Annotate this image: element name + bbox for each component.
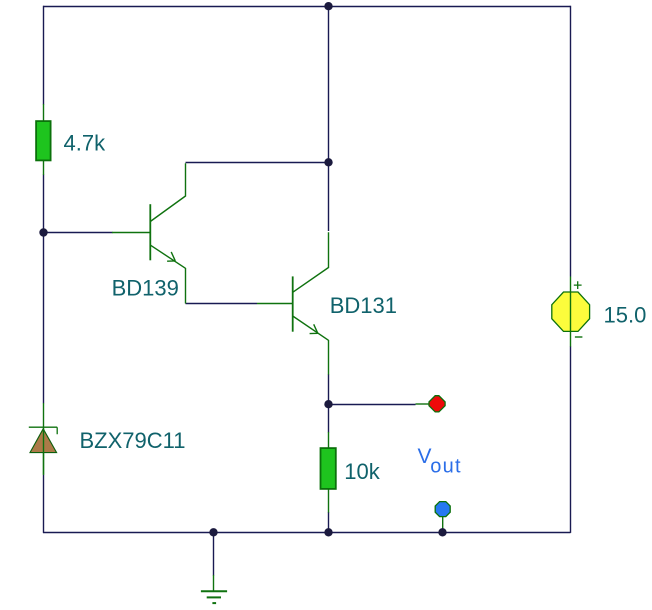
wire bottom rail — [43, 532, 571, 534]
ground — [201, 575, 227, 603]
resistor R2 10k — [321, 432, 336, 513]
wire BD139 base — [44, 232, 113, 234]
part label BZX79C11 — [80, 428, 186, 453]
wire right rail lower — [570, 346, 572, 533]
wire ground stem — [213, 532, 215, 576]
value label 4.7k — [64, 131, 107, 156]
transistor Q1 BD139 — [112, 163, 186, 303]
wire middle rail from top node down to BD131 collector — [328, 7, 330, 232]
junction output node — [324, 400, 332, 408]
battery V1 15.0V — [552, 277, 590, 347]
svg-text:BZX79C11: BZX79C11 — [80, 428, 186, 453]
svg-text:BD139: BD139 — [112, 276, 179, 301]
wire left rail lower — [43, 475, 45, 533]
wire output node to 10k resistor — [328, 404, 330, 433]
node red output probe — [416, 396, 446, 412]
junction collector node — [324, 158, 332, 166]
part label BD139 — [112, 276, 179, 301]
value label 15.0 — [604, 302, 647, 327]
wire green base pin BD131 — [257, 303, 293, 305]
junction blue probe node — [438, 528, 446, 536]
junction top node — [324, 2, 332, 10]
wire BD131 emitter down to output node — [328, 374, 330, 404]
wire top rail — [43, 6, 571, 8]
zener diode D1 BZX79C11 — [29, 403, 57, 475]
wire right rail upper — [570, 6, 572, 277]
part label BD131 — [330, 293, 397, 318]
net label Vout — [418, 445, 462, 478]
svg-text:out: out — [430, 455, 461, 477]
wire 10k resistor to bottom rail — [328, 512, 330, 533]
svg-text:4.7k: 4.7k — [64, 131, 107, 156]
junction 10k bottom node — [324, 528, 332, 536]
wire BD139 collector to middle rail — [186, 162, 329, 164]
svg-text:BD131: BD131 — [330, 293, 397, 318]
junction ground node — [209, 528, 217, 536]
transistor Q2 BD131 — [293, 232, 329, 374]
node blue reference probe — [435, 502, 450, 532]
wire left rail between resistor and zener — [43, 175, 45, 404]
svg-text:10k: 10k — [344, 459, 380, 484]
wire output node to red probe — [329, 404, 416, 406]
wire BD139 emitter to BD131 base — [186, 303, 258, 305]
value label 10k — [344, 459, 380, 484]
resistor R1 4.7k — [36, 104, 51, 175]
junction base node — [39, 228, 47, 236]
svg-text:15.0: 15.0 — [604, 302, 647, 327]
wire left rail upper — [43, 6, 45, 105]
